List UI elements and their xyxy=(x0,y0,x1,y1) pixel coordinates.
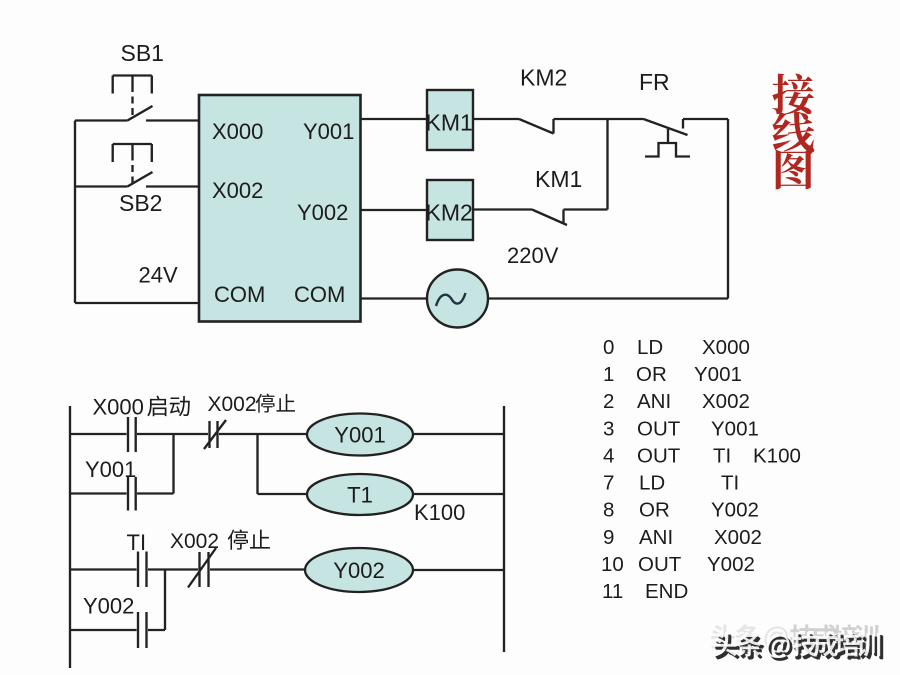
svg-text:ANI: ANI xyxy=(637,390,671,413)
svg-text:X000: X000 xyxy=(93,395,144,420)
svg-text:LD: LD xyxy=(639,472,665,495)
svg-text:X000: X000 xyxy=(702,336,750,359)
svg-text:FR: FR xyxy=(639,69,670,95)
svg-text:T1: T1 xyxy=(347,483,373,508)
svg-text:X002: X002 xyxy=(212,178,263,203)
svg-text:24V: 24V xyxy=(139,263,178,288)
svg-text:Y002: Y002 xyxy=(707,553,755,576)
svg-text:Y002: Y002 xyxy=(83,594,134,619)
svg-text:X000: X000 xyxy=(212,119,263,144)
svg-text:4: 4 xyxy=(603,444,614,467)
svg-text:7: 7 xyxy=(603,472,614,495)
svg-text:SB1: SB1 xyxy=(121,40,164,66)
svg-text:KM2: KM2 xyxy=(520,65,567,91)
svg-text:9: 9 xyxy=(603,526,614,549)
svg-text:TI: TI xyxy=(721,472,739,495)
svg-text:10: 10 xyxy=(601,553,624,576)
svg-text:Y002: Y002 xyxy=(297,200,348,225)
svg-text:X002: X002 xyxy=(714,526,762,549)
svg-text:X002: X002 xyxy=(702,390,750,413)
svg-text:Y002: Y002 xyxy=(333,558,384,583)
svg-text:@: @ xyxy=(765,629,791,659)
svg-text:OR: OR xyxy=(639,499,670,522)
svg-text:3: 3 xyxy=(603,417,614,440)
svg-text:Y001: Y001 xyxy=(334,423,385,448)
svg-text:1: 1 xyxy=(603,363,614,386)
svg-text:K100: K100 xyxy=(414,500,465,525)
svg-text:Y001: Y001 xyxy=(694,363,742,386)
svg-text:TI: TI xyxy=(127,530,147,555)
svg-text:LD: LD xyxy=(637,336,663,359)
svg-text:Y002: Y002 xyxy=(711,499,759,522)
svg-text:X002: X002 xyxy=(208,393,257,416)
svg-text:COM: COM xyxy=(294,282,345,307)
svg-text:ANI: ANI xyxy=(639,526,673,549)
svg-text:TI: TI xyxy=(713,444,731,467)
svg-text:OUT: OUT xyxy=(638,553,682,576)
svg-text:Y001: Y001 xyxy=(303,119,354,144)
svg-text:2: 2 xyxy=(603,390,614,413)
svg-text:SB2: SB2 xyxy=(119,190,162,216)
svg-text:8: 8 xyxy=(603,499,614,522)
svg-text:220V: 220V xyxy=(507,243,559,268)
svg-text:Y001: Y001 xyxy=(85,457,136,482)
svg-text:OUT: OUT xyxy=(637,417,681,440)
svg-text:KM1: KM1 xyxy=(535,166,582,192)
svg-text:KM2: KM2 xyxy=(426,200,473,226)
svg-text:END: END xyxy=(645,580,688,603)
svg-text:X002: X002 xyxy=(170,530,219,553)
svg-text:KM1: KM1 xyxy=(426,110,473,136)
svg-text:OR: OR xyxy=(636,363,667,386)
svg-text:11: 11 xyxy=(602,580,623,603)
svg-text:OUT: OUT xyxy=(637,444,681,467)
svg-text:0: 0 xyxy=(603,336,614,359)
svg-text:COM: COM xyxy=(214,282,265,307)
svg-text:K100: K100 xyxy=(753,444,801,467)
svg-text:Y001: Y001 xyxy=(711,417,759,440)
